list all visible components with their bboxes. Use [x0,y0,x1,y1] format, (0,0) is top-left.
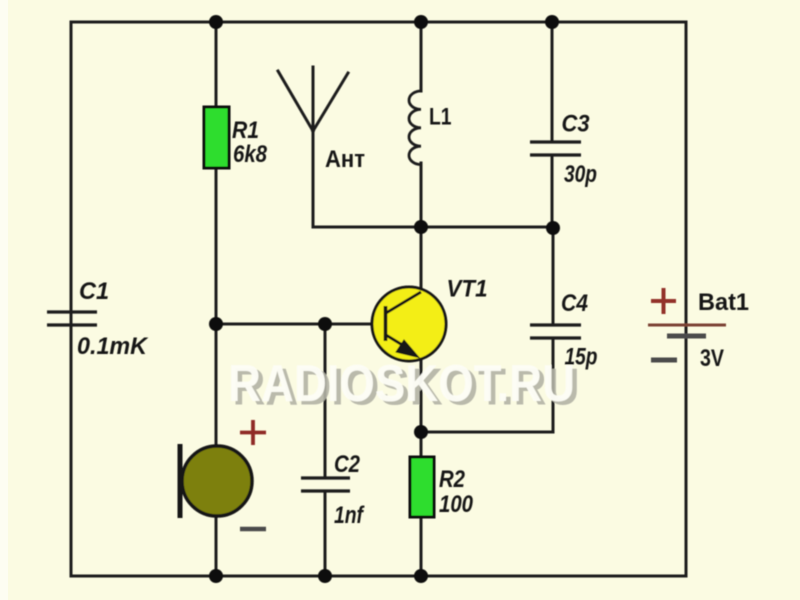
svg-text:0.1mK: 0.1mK [77,333,149,360]
svg-text:C2: C2 [334,451,361,478]
svg-text:VT1: VT1 [447,276,488,303]
svg-text:RADIOSKOT.RU: RADIOSKOT.RU [228,355,575,412]
svg-text:Ант: Ант [325,146,365,173]
svg-text:6k8: 6k8 [233,141,268,168]
svg-text:3V: 3V [700,345,724,372]
svg-text:L1: L1 [429,104,452,131]
svg-text:R1: R1 [232,117,259,144]
svg-text:C3: C3 [562,111,591,138]
svg-text:R2: R2 [439,466,466,493]
svg-text:Bat1: Bat1 [698,289,749,316]
svg-text:100: 100 [439,491,474,518]
svg-text:15p: 15p [565,344,598,371]
svg-text:30p: 30p [564,161,597,188]
svg-text:1nf: 1nf [334,502,365,529]
svg-text:C1: C1 [79,278,109,305]
svg-text:C4: C4 [561,290,588,317]
